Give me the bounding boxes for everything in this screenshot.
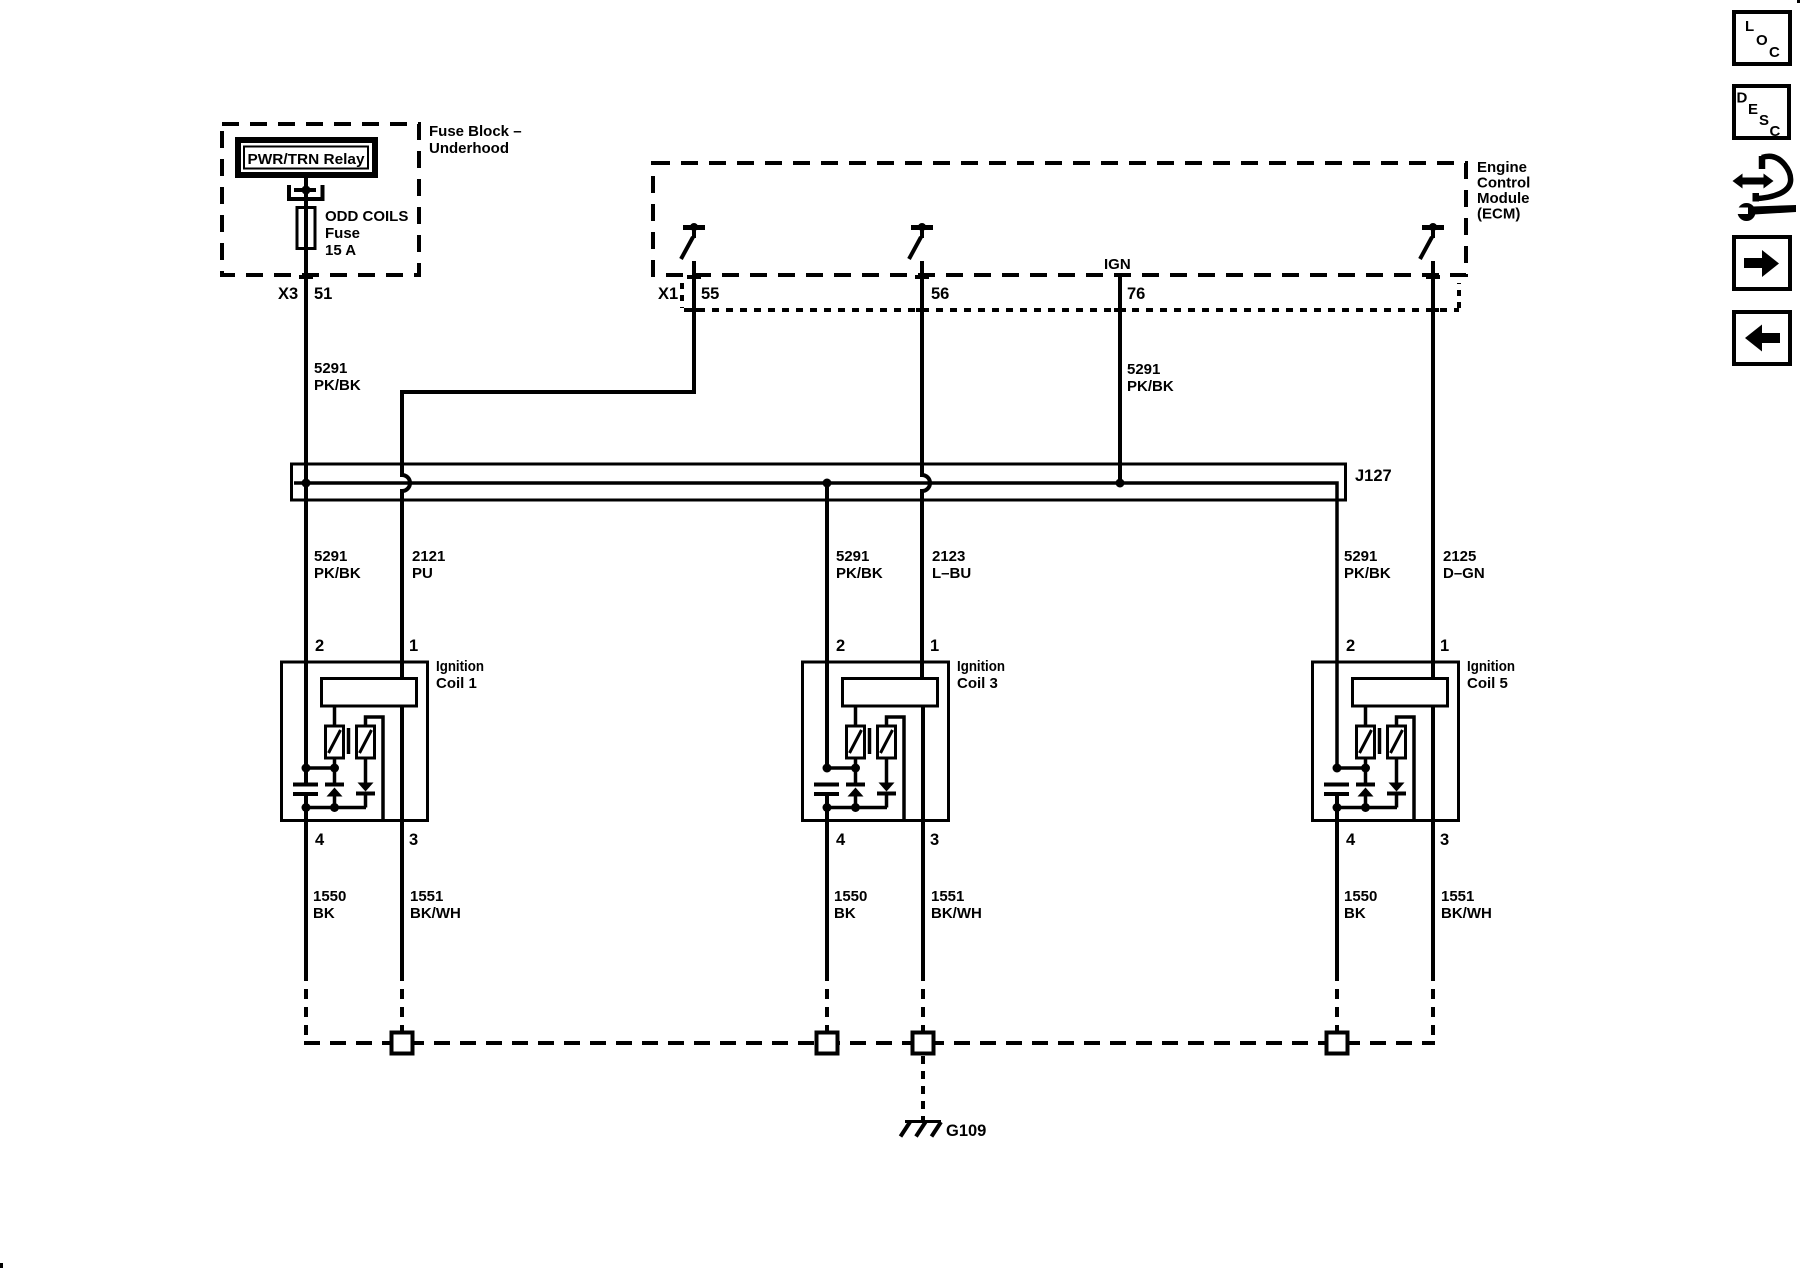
svg-text:BK/WH: BK/WH	[1441, 905, 1492, 922]
svg-text:1: 1	[930, 637, 939, 655]
wire label 5291 PK/BK (coil 5 feed)	[1344, 548, 1391, 582]
coil 5 zener diode (up)	[1356, 768, 1375, 808]
svg-text:Ignition: Ignition	[1467, 658, 1515, 675]
ignition coil 3 module box	[803, 662, 949, 821]
ODD COILS fuse 15 A	[289, 185, 323, 249]
svg-text:76: 76	[1127, 285, 1145, 303]
svg-text:Coil 5: Coil 5	[1467, 675, 1508, 692]
coil 3 left resistor	[847, 726, 865, 758]
coil 5 wire: bottom node link	[1337, 806, 1397, 810]
page artifact top-right	[1797, 0, 1800, 3]
svg-text:Ignition: Ignition	[957, 658, 1005, 675]
wire 1550 BK from coil 3 pin 4	[825, 796, 829, 971]
svg-text:4: 4	[836, 831, 846, 849]
svg-text:55: 55	[701, 285, 719, 303]
wire 1550 BK from coil 1 pin 4	[304, 796, 308, 971]
PWR/TRN Relay box	[238, 140, 375, 175]
ground splice junction block at x=1337	[1327, 1033, 1348, 1054]
svg-text:PK/BK: PK/BK	[1127, 378, 1174, 395]
svg-text:(ECM): (ECM)	[1477, 206, 1520, 223]
wire 2121 PU: ECM pin 55 to coil 1 pin 1 (hops over J127)	[402, 261, 694, 677]
coil 5 right resistor	[1388, 726, 1406, 758]
svg-text:4: 4	[1346, 831, 1356, 849]
ignition coil 1 module box	[282, 662, 428, 821]
svg-text:51: 51	[314, 285, 332, 303]
svg-text:BK: BK	[313, 905, 335, 922]
wire label 5291 PK/BK (coil 3 feed)	[836, 548, 883, 582]
wire 1550 BK from coil 5 pin 4	[1335, 796, 1339, 971]
wire 1551 BK/WH from coil 3 pin 3	[921, 708, 925, 972]
wire label 1551 BK/WH (coil 5)	[1441, 888, 1492, 922]
X1 connector dotted strip	[682, 283, 1459, 310]
wire label 1550 BK (coil 5)	[1344, 888, 1377, 922]
Fuse Block label	[429, 123, 522, 157]
coil 1 wire: left resistor to node	[333, 758, 337, 768]
junction dot (coil 3 feed)	[823, 479, 832, 488]
ground lead coil 5 pin 3 (dashed)	[1431, 971, 1435, 1043]
coil 3 middle bar	[868, 728, 872, 754]
wire label 2121 PU	[412, 548, 445, 582]
ground splice junction block at x=827	[817, 1033, 838, 1054]
ECM label	[1477, 159, 1530, 223]
coil 5 middle bar	[1378, 728, 1382, 754]
svg-text:Coil 1: Coil 1	[436, 675, 477, 692]
ignition coil 5 primary winding block	[1353, 679, 1448, 707]
svg-text:1550: 1550	[834, 888, 867, 905]
svg-text:1: 1	[1440, 637, 1449, 655]
coil 5 diode (down)	[1387, 758, 1406, 808]
coil 1 junction dot	[330, 803, 339, 812]
ground G109 symbol	[901, 1122, 942, 1137]
svg-text:2: 2	[1346, 637, 1355, 655]
fuse label	[325, 208, 408, 259]
coil 1 internal wire: primary block to left resistor	[333, 707, 337, 726]
svg-text:15 A: 15 A	[325, 242, 356, 259]
wire label 1550 BK (coil 1)	[313, 888, 346, 922]
svg-text:PK/BK: PK/BK	[314, 565, 361, 582]
svg-text:Ignition: Ignition	[436, 658, 484, 675]
splice pack J127 housing	[292, 464, 1346, 500]
wire 5291 PK/BK: IGN feed ECM pin 76 to J127	[1118, 277, 1122, 483]
svg-text:Control: Control	[1477, 175, 1530, 192]
coil 1 label	[436, 658, 484, 692]
svg-text:PK/BK: PK/BK	[314, 377, 361, 394]
wire 1551 BK/WH from coil 1 pin 3	[400, 708, 404, 972]
svg-text:S: S	[1759, 112, 1769, 129]
junction dot (IGN feed)	[1116, 479, 1125, 488]
coil 3 wire: bottom node link	[827, 806, 887, 810]
svg-text:5291: 5291	[836, 548, 869, 565]
wire label 1551 BK/WH (coil 3)	[931, 888, 982, 922]
coil 1 zener diode (up)	[325, 768, 344, 808]
svg-text:2123: 2123	[932, 548, 965, 565]
coil 1 left resistor	[326, 726, 344, 758]
svg-text:1550: 1550	[1344, 888, 1377, 905]
coil 1 diode (down)	[356, 758, 375, 808]
svg-text:IGN: IGN	[1104, 256, 1131, 273]
svg-text:X1: X1	[658, 285, 678, 303]
svg-text:2: 2	[315, 637, 324, 655]
wire 5291 PK/BK: J127 to coil 3 pin 2	[825, 483, 829, 768]
svg-text:C: C	[1769, 44, 1780, 61]
ground lead coil 1 pin 3 (dashed)	[400, 971, 404, 1032]
coil 5 junction dot	[1361, 803, 1370, 812]
svg-text:3: 3	[1440, 831, 1449, 849]
coil 1 capacitor	[293, 783, 318, 797]
wire label 1550 BK (coil 3)	[834, 888, 867, 922]
coil 5 internal wire: primary block to left resistor	[1364, 707, 1368, 726]
coil 5 wire: pin 2 node link	[1337, 766, 1366, 770]
svg-text:PU: PU	[412, 565, 433, 582]
coil 1 right resistor	[357, 726, 375, 758]
svg-text:Module: Module	[1477, 190, 1530, 207]
svg-text:1: 1	[409, 637, 418, 655]
coil 1 junction dot	[330, 764, 339, 773]
coil 3 wire: left resistor to node	[854, 758, 858, 768]
svg-text:Fuse Block –: Fuse Block –	[429, 123, 522, 140]
wire 1551 BK/WH from coil 5 pin 3	[1431, 708, 1435, 972]
wire label 2125 D-GN	[1443, 548, 1485, 582]
LOC icon box	[1734, 12, 1790, 64]
coil 5 junction dot	[1333, 803, 1342, 812]
coil 1 middle bar	[347, 728, 351, 754]
wire label 5291 PK/BK (fuse output)	[314, 360, 361, 394]
svg-text:PK/BK: PK/BK	[836, 565, 883, 582]
ECM output driver coil 5 control	[1420, 223, 1444, 259]
wire label 1551 BK/WH (coil 1)	[410, 888, 461, 922]
svg-text:2: 2	[836, 637, 845, 655]
ground splice junction block at x=923	[913, 1033, 934, 1054]
svg-text:J127: J127	[1355, 467, 1392, 485]
svg-text:BK/WH: BK/WH	[410, 905, 461, 922]
connector ticks where wires cross ECM edge	[687, 275, 1440, 279]
coil 3 junction dot	[823, 803, 832, 812]
svg-text:L–BU: L–BU	[932, 565, 971, 582]
coil 1 wire: bottom node link	[306, 806, 366, 810]
coil 3 junction dot	[823, 764, 832, 773]
svg-text:2121: 2121	[412, 548, 445, 565]
coil 3 diode (down)	[877, 758, 896, 808]
page artifact bottom-left	[0, 1263, 3, 1268]
diagnostic icon: double arrow, curved arrow, wrench	[1733, 156, 1797, 221]
svg-text:PK/BK: PK/BK	[1344, 565, 1391, 582]
Fuse Block - Underhood dashed box	[222, 124, 419, 275]
wire 2125 D-GN: ECM to coil 5 pin 1	[1431, 261, 1435, 677]
coil 3 junction dot	[851, 803, 860, 812]
ground lead coil 5 pin 4 (dashed)	[1335, 971, 1339, 1032]
svg-text:Fuse: Fuse	[325, 225, 360, 242]
coil 5 junction dot	[1333, 764, 1342, 773]
wire 2123 L-BU: ECM pin 56 to coil 3 pin 1 (hops over J127)	[922, 261, 930, 677]
coil 5 wire: right resistor top to secondary line	[1397, 717, 1415, 821]
connector ticks where wires cross X1 strip	[688, 308, 1439, 312]
ignition coil 1 primary winding block	[322, 679, 417, 707]
coil 1 wire: pin 2 node link	[306, 766, 335, 770]
svg-text:4: 4	[315, 831, 325, 849]
svg-text:E: E	[1748, 101, 1758, 118]
svg-text:L: L	[1745, 18, 1754, 35]
wire relay to fuse	[304, 178, 308, 192]
svg-text:5291: 5291	[314, 548, 347, 565]
ground splice junction block at x=402	[392, 1033, 413, 1054]
coil 3 right resistor	[878, 726, 896, 758]
coil 3 zener diode (up)	[846, 768, 865, 808]
wire 5291 PK/BK fuse to J127 splice	[304, 190, 308, 783]
ground lead coil 1 pin 4 (dashed)	[304, 971, 308, 1043]
ECM output driver pin 55	[681, 223, 705, 259]
svg-text:BK/WH: BK/WH	[931, 905, 982, 922]
wire label 5291 PK/BK (coil 1 feed)	[314, 548, 361, 582]
splice pack J127 bus conductor	[294, 483, 1337, 768]
ECM output driver pin 56	[909, 223, 933, 259]
coil 1 junction dot	[302, 764, 311, 773]
coil 1 wire: right resistor top to secondary line	[366, 717, 384, 821]
ground lead coil 3 pin 4 (dashed)	[825, 971, 829, 1032]
coil 3 internal wire: primary block to left resistor	[854, 707, 858, 726]
ignition coil 5 module box	[1313, 662, 1459, 821]
svg-text:C: C	[1770, 123, 1781, 140]
Engine Control Module dashed box	[653, 163, 1466, 275]
forward arrow icon box	[1734, 237, 1790, 289]
coil 3 label	[957, 658, 1005, 692]
coil 5 label	[1467, 658, 1515, 692]
coil 5 capacitor	[1324, 783, 1349, 797]
back arrow icon box	[1734, 312, 1790, 364]
ground drop to G109 (dashed)	[921, 1056, 925, 1120]
svg-text:56: 56	[931, 285, 949, 303]
svg-text:5291: 5291	[314, 360, 347, 377]
coil 5 wire: left resistor to node	[1364, 758, 1368, 768]
svg-text:5291: 5291	[1344, 548, 1377, 565]
svg-text:3: 3	[409, 831, 418, 849]
svg-text:G109: G109	[946, 1122, 986, 1140]
connector tick at fuse block exit	[299, 275, 313, 279]
svg-text:2125: 2125	[1443, 548, 1476, 565]
wire label 5291 PK/BK (IGN feed)	[1127, 361, 1174, 395]
junction dot (fuse feed)	[302, 479, 311, 488]
coil 5 junction dot	[1361, 764, 1370, 773]
coil 3 wire: right resistor top to secondary line	[887, 717, 905, 821]
wire label 2123 L-BU	[932, 548, 971, 582]
svg-text:Engine: Engine	[1477, 159, 1527, 176]
svg-text:D: D	[1737, 90, 1748, 107]
svg-text:O: O	[1756, 32, 1768, 49]
svg-text:Coil 3: Coil 3	[957, 675, 998, 692]
svg-text:BK: BK	[834, 905, 856, 922]
svg-text:1551: 1551	[1441, 888, 1474, 905]
svg-text:X3: X3	[278, 285, 298, 303]
svg-text:ODD COILS: ODD COILS	[325, 208, 408, 225]
svg-text:1551: 1551	[410, 888, 443, 905]
ground bus (dashed)	[304, 1041, 1435, 1045]
coil 3 wire: pin 2 node link	[827, 766, 856, 770]
ground lead coil 3 pin 3 (dashed)	[921, 971, 925, 1032]
svg-text:1551: 1551	[931, 888, 964, 905]
ignition coil 3 primary winding block	[843, 679, 938, 707]
coil 1 junction dot	[302, 803, 311, 812]
DESC icon box	[1734, 86, 1789, 140]
svg-text:1550: 1550	[313, 888, 346, 905]
coil 3 junction dot	[851, 764, 860, 773]
svg-text:5291: 5291	[1127, 361, 1160, 378]
coil 3 capacitor	[814, 783, 839, 797]
svg-text:D–GN: D–GN	[1443, 565, 1485, 582]
coil 5 left resistor	[1357, 726, 1375, 758]
svg-text:PWR/TRN Relay: PWR/TRN Relay	[248, 151, 366, 168]
svg-text:Underhood: Underhood	[429, 140, 509, 157]
svg-text:3: 3	[930, 831, 939, 849]
svg-text:BK: BK	[1344, 905, 1366, 922]
